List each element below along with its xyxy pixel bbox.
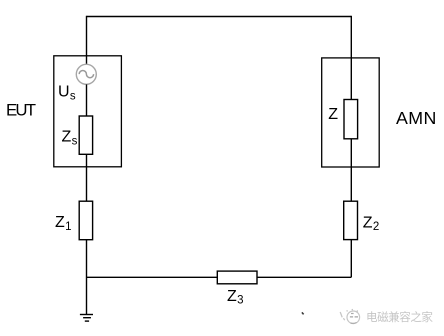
wire left vertical upper <box>86 16 88 65</box>
svg-text:EUT: EUT <box>6 101 36 120</box>
ground <box>80 315 93 322</box>
svg-text:Z2: Z2 <box>363 214 379 233</box>
svg-text:Z1: Z1 <box>55 214 71 233</box>
wire source to Zs <box>86 84 88 116</box>
EUT box <box>54 56 122 167</box>
wire top horizontal <box>87 16 352 18</box>
wire right vertical upper <box>350 16 352 100</box>
watermark logo <box>347 309 360 323</box>
wire Z2 to bottom <box>350 240 352 278</box>
stray mark <box>302 312 304 314</box>
resistor Z <box>344 100 358 139</box>
resistor Zs <box>79 116 92 154</box>
AMN box <box>322 58 380 167</box>
wire Z to Z2 <box>350 139 352 201</box>
svg-text:Zs: Zs <box>62 129 78 148</box>
svg-text:AMN: AMN <box>396 108 436 128</box>
resistor Z2 <box>344 201 358 239</box>
svg-text:Z: Z <box>328 106 338 123</box>
watermark tick <box>340 312 344 320</box>
wire bottom horizontal <box>87 276 352 278</box>
resistor Z3 <box>217 271 257 284</box>
svg-text:Z3: Z3 <box>227 288 243 307</box>
wire Zs to Z1 <box>86 154 88 201</box>
resistor Z1 <box>79 201 92 240</box>
sine symbol <box>79 71 93 78</box>
svg-text:Us: Us <box>58 84 76 103</box>
wire Z1 to ground <box>86 240 88 315</box>
svg-text:电磁兼容之家: 电磁兼容之家 <box>366 310 433 324</box>
source U_s <box>76 64 96 84</box>
